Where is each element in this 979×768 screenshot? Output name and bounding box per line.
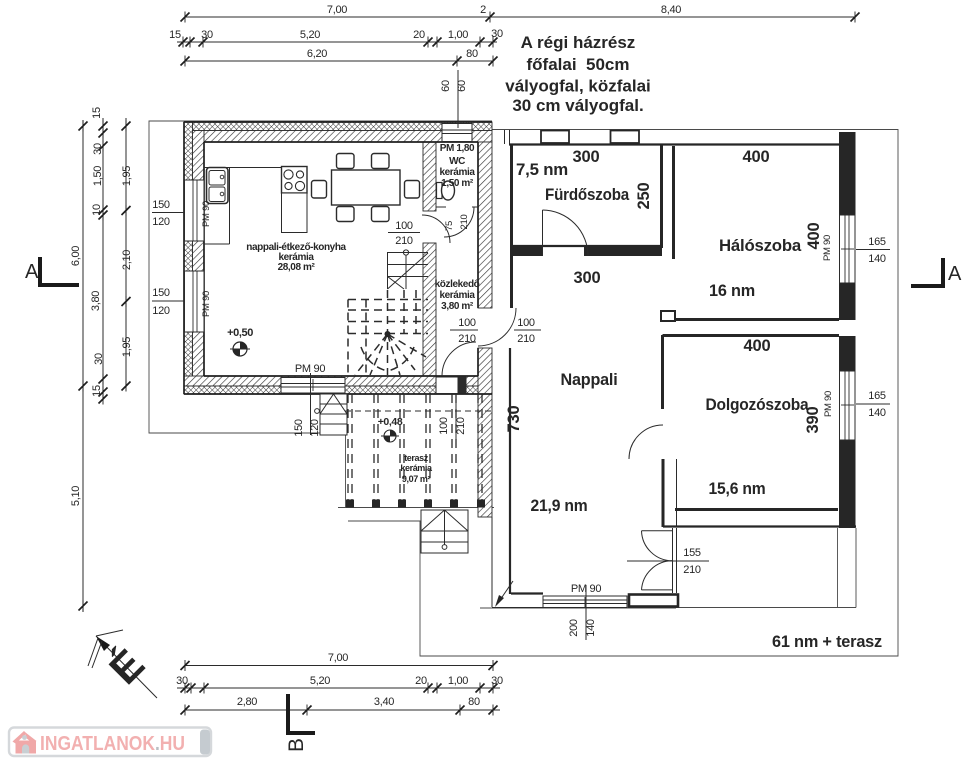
svg-text:A: A bbox=[948, 263, 962, 285]
svg-text:1,95: 1,95 bbox=[121, 166, 133, 186]
wall section lines old-new junction bbox=[504, 130, 506, 144]
svg-text:250: 250 bbox=[635, 183, 653, 210]
svg-text:140: 140 bbox=[585, 619, 597, 637]
dimension stack stair door bbox=[388, 220, 420, 247]
svg-text:2,80: 2,80 bbox=[237, 696, 257, 708]
svg-text:30: 30 bbox=[491, 675, 503, 687]
svg-text:210: 210 bbox=[683, 564, 701, 576]
svg-text:300: 300 bbox=[574, 269, 601, 287]
dimension line left outer bbox=[70, 120, 88, 612]
svg-text:16 nm: 16 nm bbox=[709, 282, 755, 300]
dimension stack hall door bbox=[438, 394, 467, 440]
eaves outline new house bbox=[348, 130, 898, 657]
kitchen counter lines bbox=[204, 168, 282, 245]
porch double door bbox=[642, 528, 677, 593]
dimension stack hall-nappali door bbox=[514, 317, 541, 345]
chair top2 bbox=[372, 154, 390, 169]
svg-text:120: 120 bbox=[152, 216, 170, 228]
svg-text:60: 60 bbox=[440, 80, 452, 92]
old wall right (to new part and terrace) bbox=[478, 142, 492, 517]
svg-text:A régi házrész: A régi házrész bbox=[521, 33, 636, 52]
svg-text:PM 90: PM 90 bbox=[822, 235, 833, 261]
svg-text:400: 400 bbox=[805, 223, 823, 250]
jamb pier bottom wall bbox=[458, 377, 467, 394]
svg-text:30: 30 bbox=[93, 353, 105, 365]
svg-text:1,00: 1,00 bbox=[448, 675, 468, 687]
svg-text:7,00: 7,00 bbox=[327, 4, 347, 16]
svg-text:A: A bbox=[25, 261, 39, 283]
logo ingatlanok.hu bbox=[9, 728, 211, 757]
chair top1 bbox=[337, 154, 355, 169]
svg-text:400: 400 bbox=[743, 148, 770, 166]
door hall-terrace bbox=[442, 342, 476, 376]
svg-text:15: 15 bbox=[169, 29, 181, 41]
svg-text:150: 150 bbox=[293, 419, 305, 437]
dimension stack study window bbox=[823, 390, 890, 419]
svg-text:75: 75 bbox=[444, 221, 455, 231]
chair bottom1 bbox=[337, 207, 355, 222]
svg-text:210: 210 bbox=[458, 333, 476, 345]
svg-text:30: 30 bbox=[491, 28, 503, 40]
node bathroom labels bbox=[516, 148, 653, 209]
svg-text:vályogfal, közfalai: vályogfal, közfalai bbox=[505, 77, 651, 96]
svg-text:165: 165 bbox=[868, 390, 886, 402]
svg-text:20: 20 bbox=[415, 675, 427, 687]
svg-text:3,80: 3,80 bbox=[90, 291, 102, 311]
terrace posts dashed bbox=[348, 394, 482, 500]
svg-text:terasz: terasz bbox=[404, 453, 429, 463]
svg-text:100: 100 bbox=[395, 220, 413, 232]
bottom wall of new part bbox=[492, 595, 678, 608]
svg-text:kerámia: kerámia bbox=[439, 290, 475, 301]
door hall-nappali bbox=[478, 308, 516, 346]
node hall label bbox=[435, 279, 480, 312]
study door arc bbox=[629, 425, 663, 459]
svg-text:Hálószoba: Hálószoba bbox=[719, 237, 802, 255]
svg-text:5,20: 5,20 bbox=[310, 675, 330, 687]
dimension line bottom1 bbox=[181, 652, 498, 671]
svg-text:3,40: 3,40 bbox=[374, 696, 394, 708]
svg-text:Dolgozószoba: Dolgozószoba bbox=[706, 396, 810, 414]
old wall left inner band bbox=[193, 131, 205, 386]
svg-text:140: 140 bbox=[868, 407, 886, 419]
svg-text:100: 100 bbox=[458, 317, 476, 329]
svg-text:30 cm vályogfal.: 30 cm vályogfal. bbox=[512, 96, 643, 115]
nappali west wall bbox=[492, 348, 543, 607]
svg-text:150: 150 bbox=[152, 199, 170, 211]
old wall top inner band bbox=[184, 131, 492, 143]
section mark B bottom bbox=[285, 694, 315, 752]
svg-text:1,50: 1,50 bbox=[92, 166, 104, 186]
porch slab edge bottom-right bbox=[676, 528, 856, 608]
node nappali labels bbox=[505, 269, 618, 515]
svg-text:150: 150 bbox=[152, 287, 170, 299]
svg-text:730: 730 bbox=[505, 406, 523, 433]
svg-text:210: 210 bbox=[459, 215, 470, 230]
svg-text:WC: WC bbox=[449, 156, 465, 167]
svg-text:140: 140 bbox=[868, 253, 886, 265]
svg-text:15: 15 bbox=[91, 107, 103, 119]
dimension stack window2 bbox=[152, 287, 184, 317]
cabinet under stove bbox=[282, 193, 308, 233]
svg-text:100: 100 bbox=[517, 317, 535, 329]
svg-text:9,07 m²: 9,07 m² bbox=[402, 474, 431, 484]
svg-text:100: 100 bbox=[438, 417, 450, 435]
dimension line top2 bbox=[169, 28, 503, 48]
chimney box 1 bbox=[541, 131, 569, 144]
svg-text:200: 200 bbox=[568, 619, 580, 637]
svg-text:főfalai 50cm: főfalai 50cm bbox=[527, 55, 630, 74]
dimension line bottom2 bbox=[176, 675, 503, 694]
stair upper flight bbox=[388, 250, 429, 289]
right wall window bedroom bbox=[840, 215, 856, 283]
interior wall kitchen-hall bbox=[423, 142, 436, 376]
corner arrow bbox=[495, 581, 513, 607]
svg-text:28,08 m²: 28,08 m² bbox=[278, 262, 316, 273]
svg-text:2,10: 2,10 bbox=[121, 250, 133, 270]
dimension line bottom3 bbox=[181, 696, 501, 716]
PM 90 bottom kitchen bbox=[293, 363, 325, 437]
svg-text:PM 90: PM 90 bbox=[823, 391, 834, 417]
svg-text:155: 155 bbox=[683, 547, 701, 559]
svg-text:21,9 nm: 21,9 nm bbox=[531, 497, 588, 515]
dimension stack window1 bbox=[152, 199, 184, 228]
window W2 left wall bbox=[185, 271, 205, 332]
ground line at bottom wall bbox=[480, 607, 676, 609]
level mark +0,48 bbox=[378, 416, 403, 442]
svg-text:120: 120 bbox=[152, 305, 170, 317]
toilet in WC bbox=[437, 181, 455, 200]
svg-text:1,95: 1,95 bbox=[121, 337, 133, 357]
svg-text:5,10: 5,10 bbox=[70, 486, 82, 506]
svg-text:INGATLANOK.HU: INGATLANOK.HU bbox=[40, 732, 185, 755]
bathroom walls bbox=[511, 145, 662, 308]
bathroom door bbox=[543, 210, 589, 256]
terrace steps down bbox=[421, 510, 468, 553]
svg-text:210: 210 bbox=[517, 333, 535, 345]
svg-text:210: 210 bbox=[395, 235, 413, 247]
svg-text:közlekedő: közlekedő bbox=[435, 279, 480, 290]
svg-text:PM 90: PM 90 bbox=[201, 291, 212, 317]
section mark A right bbox=[911, 258, 962, 286]
svg-text:210: 210 bbox=[455, 417, 467, 435]
node terrace label bbox=[400, 453, 433, 484]
svg-text:7,00: 7,00 bbox=[328, 652, 348, 664]
svg-text:B: B bbox=[285, 738, 308, 752]
door opening hall to terrace bbox=[436, 377, 458, 394]
stair winder dashed bbox=[348, 290, 428, 375]
window WC top wall bbox=[442, 124, 472, 142]
svg-text:10: 10 bbox=[91, 204, 103, 216]
dining table bbox=[332, 170, 401, 205]
svg-text:5,20: 5,20 bbox=[300, 29, 320, 41]
window bottom wall kitchen bbox=[281, 378, 345, 394]
svg-text:3,80 m²: 3,80 m² bbox=[441, 301, 474, 312]
node WC label bbox=[439, 143, 475, 189]
door kitchen-hall bbox=[422, 215, 450, 243]
dimension line left inner bbox=[121, 118, 133, 392]
terrace post feet bbox=[346, 500, 485, 508]
sink unit bbox=[207, 168, 229, 204]
dimension line top1 bbox=[181, 4, 860, 23]
WC bottom wall jambs bbox=[436, 206, 446, 208]
north arrow bbox=[88, 630, 157, 698]
svg-text:80: 80 bbox=[468, 696, 480, 708]
bedroom walls bbox=[661, 146, 839, 321]
svg-text:kerámia: kerámia bbox=[439, 167, 475, 178]
dimension stack bedroom window bbox=[822, 235, 890, 265]
node bedroom labels bbox=[709, 148, 823, 300]
old wall bottom inner band bbox=[184, 376, 492, 386]
right exterior wall black segments bbox=[839, 132, 856, 528]
svg-text:1,50 m²: 1,50 m² bbox=[441, 178, 474, 189]
old wall bottom outer band bbox=[184, 386, 492, 394]
svg-text:8,40: 8,40 bbox=[661, 4, 681, 16]
svg-text:120: 120 bbox=[309, 419, 321, 437]
svg-text:30: 30 bbox=[176, 675, 188, 687]
terrace horizontal dashed bbox=[345, 410, 492, 412]
chair right bbox=[405, 181, 420, 199]
note text block bbox=[505, 33, 651, 115]
svg-text:390: 390 bbox=[804, 407, 822, 434]
node kitchen label bbox=[246, 242, 346, 273]
svg-text:PM 1,80: PM 1,80 bbox=[440, 143, 475, 154]
svg-text:1,00: 1,00 bbox=[448, 29, 468, 41]
svg-text:61 nm + terasz: 61 nm + terasz bbox=[772, 633, 882, 651]
svg-text:kerámia: kerámia bbox=[400, 463, 433, 473]
window W1 left wall bbox=[185, 180, 205, 241]
terrace door window glyph bottom bbox=[543, 596, 627, 608]
door WC bbox=[444, 207, 474, 237]
svg-text:165: 165 bbox=[868, 236, 886, 248]
svg-text:15: 15 bbox=[91, 385, 103, 397]
entry steps bbox=[315, 394, 347, 435]
chair bottom2 bbox=[372, 207, 390, 222]
terrace left edge bbox=[345, 435, 347, 507]
study walls bbox=[663, 335, 857, 527]
svg-text:+0,50: +0,50 bbox=[227, 327, 253, 339]
stair center post bbox=[385, 331, 391, 337]
svg-text:Fürdőszoba: Fürdőszoba bbox=[545, 186, 630, 204]
stove bbox=[282, 167, 308, 194]
svg-text:400: 400 bbox=[744, 337, 771, 355]
dimension line left mid bbox=[90, 107, 108, 404]
svg-text:30: 30 bbox=[92, 143, 104, 155]
svg-text:30: 30 bbox=[201, 29, 213, 41]
old wall top outer band bbox=[184, 122, 492, 131]
right wall window study bbox=[840, 371, 856, 440]
svg-text:20: 20 bbox=[413, 29, 425, 41]
dimension stack porch door bbox=[627, 547, 709, 576]
dimension stack bottom window bbox=[568, 583, 601, 640]
dimension stack hall-terrace door bbox=[450, 317, 478, 345]
svg-text:Nappali: Nappali bbox=[561, 371, 618, 389]
eaves outline old house bbox=[149, 121, 492, 433]
chimney box 2 bbox=[611, 131, 640, 144]
svg-text:+0,48: +0,48 bbox=[378, 416, 403, 428]
section mark A left bbox=[25, 257, 79, 285]
chair left bbox=[312, 181, 327, 199]
new part top wall inner face bbox=[509, 143, 839, 145]
kitchen counter bottom bbox=[204, 243, 230, 245]
old wall left outer band bbox=[184, 122, 193, 394]
level mark +0,50 bbox=[227, 327, 253, 356]
node study labels bbox=[706, 337, 823, 498]
dimension 60 60 wc axis bbox=[440, 70, 468, 128]
terrace slab edge bbox=[338, 507, 494, 509]
svg-text:7,5 nm: 7,5 nm bbox=[516, 161, 568, 179]
dimension line top3 bbox=[181, 48, 498, 67]
svg-text:2: 2 bbox=[480, 4, 486, 16]
wall face lines old house bbox=[184, 122, 492, 394]
svg-text:80: 80 bbox=[466, 48, 478, 60]
svg-text:300: 300 bbox=[573, 148, 600, 166]
svg-text:6,00: 6,00 bbox=[70, 246, 82, 266]
svg-text:PM 90: PM 90 bbox=[201, 201, 212, 227]
svg-text:15,6 nm: 15,6 nm bbox=[709, 480, 766, 498]
svg-text:60: 60 bbox=[456, 80, 468, 92]
svg-text:6,20: 6,20 bbox=[307, 48, 327, 60]
